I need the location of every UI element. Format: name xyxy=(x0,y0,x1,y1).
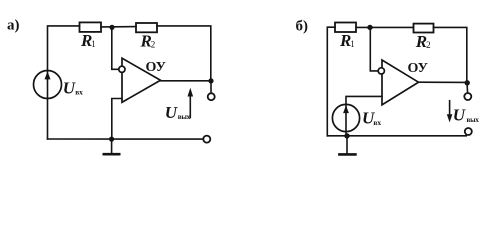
node: output junction (б) xyxy=(465,80,470,85)
node: ground junction (a) xyxy=(109,137,114,142)
wire bottom rail (б) xyxy=(327,135,466,137)
terminal: output upper (б) xyxy=(464,93,471,100)
op-amp U1 (a) xyxy=(122,58,161,102)
wire output (б) xyxy=(419,81,467,83)
arrow Uвых (б) xyxy=(449,101,451,115)
svg-text:вх: вх xyxy=(373,118,381,127)
svg-text:a): a) xyxy=(7,18,20,34)
arrow Uвых (a) xyxy=(189,96,191,118)
terminal: output lower (б) xyxy=(465,128,472,135)
resistor R1 (б) xyxy=(335,23,356,33)
svg-text:вых: вых xyxy=(178,113,191,121)
wire output stub to terminal (б) xyxy=(466,83,469,94)
source Uвх (a) xyxy=(34,71,62,99)
svg-text:вх: вх xyxy=(75,87,83,96)
resistor R1 (a) xyxy=(80,22,102,32)
svg-text:U: U xyxy=(165,103,178,122)
wire non-inverting input to source (б) xyxy=(346,96,382,135)
node: R1/R2 junction (б) xyxy=(367,25,372,30)
wire bottom rail (a) xyxy=(48,138,204,140)
wire inverting feed (a) xyxy=(112,27,119,69)
inverting input circle (б) xyxy=(378,68,384,74)
svg-text:б): б) xyxy=(296,19,309,35)
resistor R2 (a) xyxy=(136,23,157,32)
wire inverting feed (б) xyxy=(370,27,378,71)
node: R1/R2 junction (a) xyxy=(109,25,114,30)
svg-text:1: 1 xyxy=(91,39,96,49)
wire R1 to R2 (б) xyxy=(356,26,414,28)
wire output (a) xyxy=(161,80,211,82)
wire R1 to R2 (a) xyxy=(101,26,136,28)
svg-text:2: 2 xyxy=(151,40,156,50)
node: ground junction (б) xyxy=(344,133,349,138)
svg-text:ОУ: ОУ xyxy=(408,61,428,76)
wire non-inverting input to ground rail (a) xyxy=(112,99,122,140)
node: output junction (a) xyxy=(208,78,213,83)
svg-text:1: 1 xyxy=(350,39,355,49)
terminal: output lower (a) xyxy=(203,136,210,143)
svg-text:ОУ: ОУ xyxy=(146,60,166,75)
wire top-left (б): left vertical + top run to R1 xyxy=(327,27,335,136)
ground (a) xyxy=(111,139,113,153)
source Uвх (б) xyxy=(332,104,359,131)
svg-text:U: U xyxy=(453,106,466,125)
wire R2 to top-right corner + right vertical (б) xyxy=(434,27,467,82)
wire output stub to terminal (a) xyxy=(210,81,212,93)
wire top-left (a): left vertical + top run to R1 xyxy=(48,26,80,139)
terminal: output upper (a) xyxy=(208,93,215,100)
svg-text:вых: вых xyxy=(467,116,480,124)
resistor R2 (б) xyxy=(414,24,434,33)
svg-text:2: 2 xyxy=(426,40,431,50)
svg-text:U: U xyxy=(63,79,76,98)
inverting input circle (a) xyxy=(119,66,125,72)
op-amp U2 (б) xyxy=(382,60,419,105)
wire R2 to top-right corner + right vertical (a) xyxy=(157,26,211,81)
ground (б) xyxy=(346,136,348,153)
